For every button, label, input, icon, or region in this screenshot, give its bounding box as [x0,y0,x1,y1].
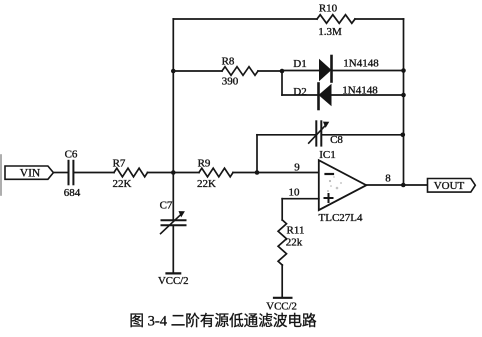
svg-text:C8: C8 [330,134,343,146]
svg-text:C6: C6 [65,148,78,160]
svg-text:22K: 22K [197,178,216,190]
wire node to D2 cathode [282,94,319,96]
svg-text:R9: R9 [198,157,211,169]
svg-text:R10: R10 [319,3,338,15]
wire left vertical riser [172,19,174,173]
scan edge artifact [0,155,2,195]
wire D2 anode to right rail [332,94,404,96]
node C8-right junction dot [401,133,406,138]
wire node A down to C7 [172,173,174,220]
op-amp IC1 TLC27L4 [319,149,367,224]
wire R9 to op-amp pin 9 [233,172,319,174]
resistor R10 1.3M [317,3,355,38]
svg-text:图 3-4 二阶有源低通滤波电路: 图 3-4 二阶有源低通滤波电路 [129,312,317,329]
svg-text:VIN: VIN [20,168,41,180]
svg-text:D1: D1 [293,58,306,70]
power VCC/2 under C7 [158,273,189,287]
node R8 branch dot [171,69,176,74]
wire C6 to R7 [75,172,114,174]
svg-text:684: 684 [64,187,81,199]
svg-text:D2: D2 [293,86,306,98]
wire D1 cathode to right rail [332,70,404,72]
node diode-left junction dot [280,69,285,74]
svg-text:VOUT: VOUT [434,180,465,192]
wire C7 to VCC/2 [172,226,174,273]
node output junction dot [401,183,406,188]
capacitor C7 (variable) [160,199,186,233]
power VCC/2 under R11 [266,298,297,313]
svg-text:22K: 22K [113,178,132,190]
resistor R8 390 [222,55,258,87]
svg-text:390: 390 [222,75,239,87]
wire R11 to VCC/2 [281,265,283,297]
wire R8 to diode node [258,70,282,72]
wire R7 to node A [148,172,200,174]
wire top feedback [173,18,317,20]
node D2-right junction dot [401,93,406,98]
svg-text:VCC/2: VCC/2 [158,275,189,287]
svg-text:R7: R7 [113,157,126,169]
resistor R7 22K [113,157,148,189]
node B junction dot [255,170,260,175]
diode D1 1N4148 [293,56,379,82]
resistor R9 22K [197,157,233,189]
wire right vertical rail [403,19,405,185]
wire pin 10 [282,198,319,200]
svg-text:1.3M: 1.3M [318,26,342,38]
svg-text:TLC27L4: TLC27L4 [319,212,363,224]
wire R10 to right rail [355,18,404,20]
wire R8 branch [173,70,222,72]
wire VIN to C6 [53,172,67,174]
svg-text:22k: 22k [286,236,303,248]
svg-text:R11: R11 [287,225,305,237]
svg-text:C7: C7 [160,199,173,211]
wire pin10 down to R11 [281,199,283,220]
wire C8 branch vertical [256,135,258,173]
wire C8 branch left [257,134,316,136]
svg-text:IC1: IC1 [319,149,336,161]
wire node to D1 anode [282,70,319,72]
terminal VIN [5,166,53,180]
diode D2 1N4148 [293,84,378,110]
svg-text:1N4148: 1N4148 [343,58,379,70]
terminal VOUT [428,179,476,193]
capacitor C8 (variable) [309,121,344,146]
svg-text:VCC/2: VCC/2 [266,301,297,313]
capacitor C6 [64,148,81,199]
wire op-amp output to VOUT [366,184,427,186]
wire C8 to right rail [322,134,404,136]
svg-text:R8: R8 [222,55,235,67]
node D1-right junction dot [401,68,406,73]
node A junction dot [171,170,176,175]
resistor R11 22k [278,220,304,265]
wire diode-left down connector [281,71,283,95]
svg-text:10: 10 [289,187,301,199]
svg-text:9: 9 [294,161,300,173]
svg-text:8: 8 [385,172,391,184]
